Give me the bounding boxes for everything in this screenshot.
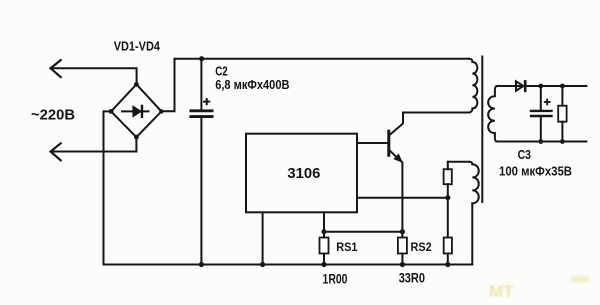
svg-text:1R00: 1R00: [323, 272, 348, 287]
wire current-sense cross line RS1 to RS2: [324, 231, 402, 233]
wire C2 top lead: [200, 59, 202, 110]
wire IC pin1 down to rail: [262, 212, 264, 264]
wire C2 bottom lead: [200, 118, 202, 265]
svg-text:3106: 3106: [287, 166, 320, 182]
input arrow bottom: [51, 143, 61, 160]
svg-text:VD1-VD4: VD1-VD4: [114, 40, 160, 54]
wire top rail: [175, 58, 470, 60]
junction RS1 top: [321, 229, 326, 234]
capacitor C2 plates: [191, 111, 212, 117]
transistor Q1 collector lead to primary: [390, 113, 469, 135]
wire RS1 to rail: [323, 254, 325, 265]
svg-text:~220В: ~220В: [31, 107, 75, 124]
wire output top: [497, 85, 587, 87]
resistor RS2: [398, 238, 407, 254]
wire bridge right vertex up to top rail: [161, 59, 174, 111]
wire input bottom to bridge bottom vertex: [51, 137, 137, 151]
transformer core: [481, 57, 483, 203]
wire output bottom: [497, 141, 587, 143]
wire divider middle: [447, 184, 449, 237]
C3 polarity plus: [545, 100, 550, 105]
junction output bottom at C3: [538, 139, 543, 144]
node dot bridge top vertex: [134, 82, 139, 87]
svg-text:100 мкФх35В: 100 мкФх35В: [499, 165, 572, 179]
wire load bottom lead: [561, 122, 563, 142]
resistor feedback upper: [444, 169, 452, 184]
wire RS2 to rail: [401, 254, 403, 265]
transformer T1 primary winding: [469, 59, 478, 113]
C2 polarity plus: [204, 99, 209, 104]
diode VD5 output: [516, 81, 525, 91]
svg-text:МТ: МТ: [489, 282, 514, 301]
bridge rectifier VD1-VD4 diamond: [111, 84, 161, 137]
transformer T1 secondary winding: [488, 86, 498, 142]
transistor Q1 emitter lead: [390, 151, 402, 238]
wire input top to bridge top vertex: [51, 68, 137, 84]
junction output bottom at load: [560, 139, 565, 144]
wire divider bottom lead: [447, 254, 449, 265]
capacitor C3 plates: [531, 111, 552, 116]
wire rail right end up to feedback winding: [471, 203, 473, 264]
svg-text:С3: С3: [518, 148, 531, 162]
wire IC feedback pin to divider tap: [357, 197, 448, 199]
transistor Q1 emitter arrow: [393, 154, 403, 163]
node dot bridge left vertex: [109, 109, 114, 114]
resistor feedback lower: [444, 238, 452, 254]
svg-text:RS1: RS1: [336, 240, 358, 254]
junction rail at RS1: [321, 262, 326, 267]
junction top rail at C2: [199, 56, 204, 61]
watermark dash: [571, 276, 589, 282]
svg-text:33R0: 33R0: [399, 270, 425, 285]
wire IC pin2 down to RS1: [323, 212, 325, 237]
wire feedback winding top to divider: [448, 161, 469, 163]
junction RS2 top: [400, 229, 405, 234]
wire IC pin to transistor base: [357, 142, 388, 144]
svg-text:6,8 мкФх400В: 6,8 мкФх400В: [215, 78, 289, 92]
junction rail at C2: [199, 262, 204, 267]
input arrow top: [51, 60, 61, 77]
wire bridge left vertex down to bottom rail: [104, 111, 112, 264]
transistor Q1 base bar: [387, 131, 390, 155]
junction divider tap: [445, 195, 450, 200]
wire C3 bottom lead: [540, 117, 542, 142]
wire bottom rail: [104, 264, 473, 266]
node dot bridge right vertex: [159, 109, 163, 113]
diode symbol inside bridge: [122, 106, 149, 117]
junction rail at RS2: [400, 262, 405, 267]
wire load top lead: [561, 86, 563, 106]
svg-text:C2: C2: [215, 65, 228, 79]
node dot bridge bottom vertex: [134, 135, 139, 140]
junction rail at IC pin1: [260, 262, 265, 267]
svg-text:RS2: RS2: [411, 240, 432, 254]
wire C3 top lead: [540, 86, 542, 110]
junction rail at divider: [445, 262, 450, 267]
IC U1 box: [246, 134, 357, 213]
transformer T1 feedback winding: [469, 162, 478, 204]
junction output top at C3: [538, 84, 543, 89]
junction output top at load: [560, 84, 565, 89]
resistor load: [558, 106, 566, 122]
wire divider top lead: [447, 162, 449, 170]
resistor RS1: [320, 238, 329, 254]
